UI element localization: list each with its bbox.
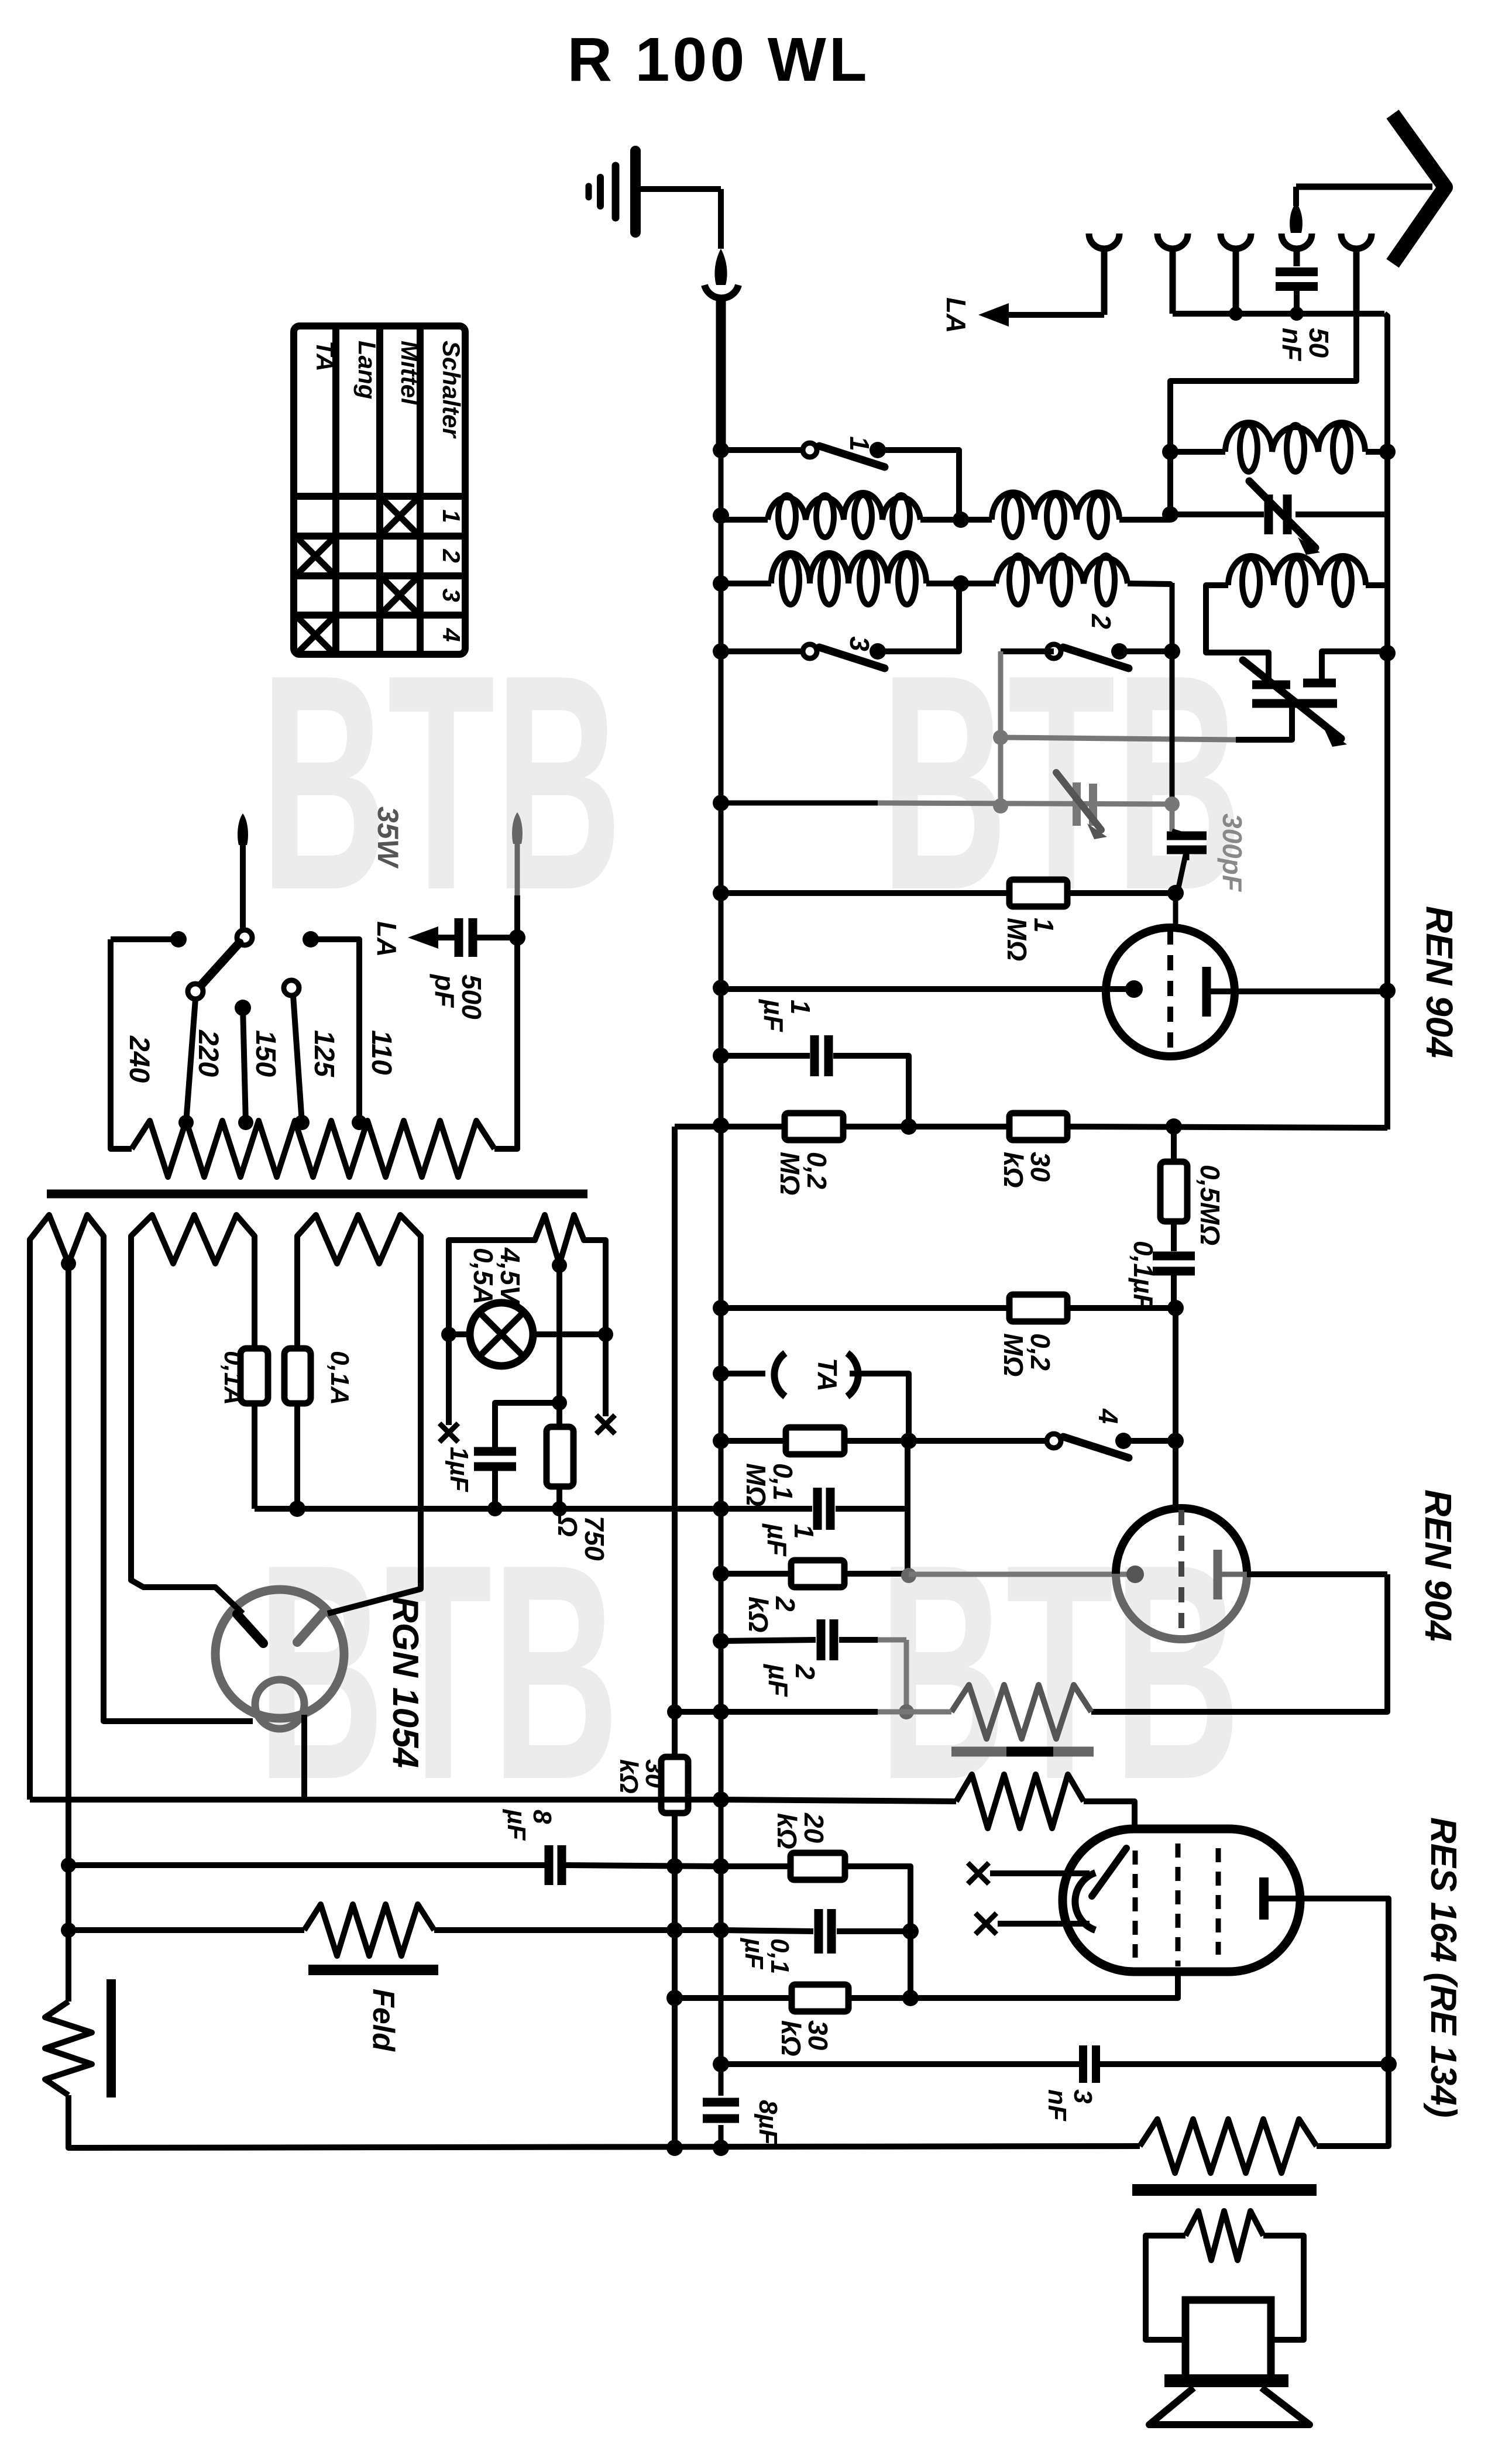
- variable capacitor C-tune2: [1252, 681, 1290, 689]
- svg-text:2: 2: [1086, 613, 1116, 629]
- svg-text:REN 904: REN 904: [1417, 1489, 1459, 1642]
- mains tap contact 240: [111, 936, 178, 942]
- svg-text:REN 904: REN 904: [1418, 906, 1461, 1058]
- svg-text:Schalter: Schalter: [438, 341, 465, 439]
- antenna socket fork 5: [1341, 234, 1356, 249]
- tube V2 cathode dot: [1126, 1566, 1144, 1583]
- tube V3 filament arc: [1075, 1873, 1095, 1930]
- wire V3 anode to output transformer: [1300, 1899, 1389, 2146]
- fuse 0.1A right: [294, 1252, 300, 1348]
- tube V2 anode: [1214, 1550, 1222, 1599]
- mains selector arm: [201, 943, 239, 986]
- tube V3 grid2 dashed: [1176, 1843, 1181, 1966]
- inductor tuning coil L6: [1228, 555, 1366, 585]
- capacitor 300pF: [1167, 832, 1207, 840]
- svg-text:RES 164 (RE 134): RES 164 (RE 134): [1423, 1817, 1463, 2117]
- tube V3 RES 164 envelope: [1063, 1829, 1300, 1972]
- wire coil L6 right to rail: [1366, 582, 1387, 588]
- interstage transformer primary winding: [951, 1685, 1091, 1739]
- resistor 0.2 Mohm: [721, 1124, 785, 1130]
- secondary winding W2 rectifier heater: [131, 1215, 255, 1264]
- svg-text:LA: LA: [372, 921, 402, 957]
- tube V3 heater x mark bottom: [975, 1913, 996, 1934]
- capacitor 3nF: [721, 2061, 1079, 2067]
- capacitor 8uF first: [68, 1862, 545, 1868]
- grid rail tube2: [1173, 1308, 1178, 1508]
- resistor 30 kohm cathode: [675, 1995, 792, 2001]
- choke core bar: [106, 1979, 116, 2097]
- tube V3 cathode slant electrode: [1092, 1848, 1126, 1896]
- wire grid-leak row: [675, 1124, 721, 1130]
- resistor 0.1 Mohm: [721, 1438, 786, 1444]
- wire coil L4 to rail: [1128, 583, 1170, 585]
- svg-text:50nF: 50nF: [1277, 328, 1334, 362]
- ground symbol: [589, 151, 635, 232]
- bus junction dots: [713, 442, 729, 458]
- svg-text:3: 3: [438, 588, 465, 602]
- capacitor 1uF grid: [721, 1053, 810, 1059]
- mains tap 220 lead: [186, 999, 195, 1122]
- capacitor 50nF: [1276, 267, 1318, 276]
- resistor 1 Mohm: [721, 890, 1009, 896]
- wire choke to bottom bus: [68, 2095, 1140, 2148]
- svg-text:125: 125: [308, 1030, 339, 1077]
- resistor 0.2 Mohm second: [721, 1305, 1009, 1311]
- wire ground to antenna line: [635, 186, 721, 192]
- wire bus lower links: [675, 1709, 721, 1715]
- resistor 30 kohm screen: [661, 1757, 688, 1813]
- speaker voice coil winding: [1185, 2211, 1263, 2260]
- variable capacitor C-tune1: [1170, 511, 1264, 517]
- inductor antenna coil L3: [721, 581, 771, 586]
- main vertical bus wire: [719, 452, 724, 2096]
- inductor antenna coil L2: [992, 492, 1119, 520]
- svg-text:4: 4: [438, 627, 465, 641]
- interstage transformer core: [951, 1747, 1094, 1757]
- svg-text:3: 3: [844, 636, 875, 651]
- tube V1 anode: [1202, 967, 1211, 1017]
- RGN filament electrode right: [297, 1613, 323, 1642]
- svg-text:RGN 1054: RGN 1054: [385, 1597, 425, 1768]
- interstage transformer secondary winding: [721, 1800, 956, 1801]
- wire coil L6 left drop: [1206, 585, 1269, 681]
- mains tap 110: [303, 931, 319, 948]
- LA arrow mains: [438, 935, 459, 940]
- wire fork5 to tuned circuit: [1170, 314, 1356, 514]
- svg-text:BTB: BTB: [257, 1501, 619, 1843]
- svg-text:4: 4: [1093, 1408, 1123, 1424]
- svg-text:BTB: BTB: [260, 612, 622, 954]
- wire W2 left to RGN: [131, 1252, 243, 1614]
- output transformer core: [1132, 2184, 1317, 2196]
- antenna fork bus: [1173, 311, 1384, 317]
- tube V1 cathode wire: [721, 986, 1134, 992]
- wire W1 left down: [27, 1252, 33, 1800]
- svg-text:0,1A: 0,1A: [325, 1351, 354, 1405]
- capacitor 1uF cathode: [721, 1506, 812, 1512]
- wire varcap2 bottom to switch2: [1236, 703, 1292, 740]
- antenna socket fork 3: [1221, 234, 1236, 249]
- LA arrow to fork 1: [1009, 312, 1104, 318]
- RGN anode circle: [255, 1680, 304, 1729]
- tube V3 grid3 dashed: [1216, 1848, 1221, 1955]
- svg-text:240: 240: [123, 1035, 154, 1083]
- switch contact 1: [721, 447, 803, 453]
- rectifier tube RGN 1054 envelope: [215, 1590, 344, 1718]
- speaker pole bar: [1164, 2374, 1288, 2387]
- svg-text:2: 2: [438, 548, 465, 562]
- svg-text:Lang: Lang: [353, 341, 381, 399]
- wire switch2 left drop gray: [1001, 648, 1054, 654]
- tube V1 REN 904 envelope: [1106, 928, 1235, 1056]
- svg-text:4,5V0,5A: 4,5V0,5A: [468, 1247, 525, 1305]
- secondary winding W3 HV: [297, 1215, 421, 1264]
- svg-text:1: 1: [438, 509, 465, 523]
- switch contact 3: [721, 648, 803, 654]
- transformer primary winding: [132, 1121, 494, 1177]
- smoothing choke: [45, 2002, 92, 2095]
- wire antenna thick lead: [716, 301, 726, 452]
- wire W1 right to RGN bottom: [104, 1252, 253, 1721]
- capacitor 8uF second: [703, 2098, 739, 2107]
- mains switch terminal 1: [238, 813, 248, 845]
- field coil Feld wire: [68, 1927, 304, 1933]
- mains tap 150: [235, 1000, 251, 1016]
- Feld core bar: [308, 1965, 438, 1975]
- RGN filament electrode left: [237, 1614, 263, 1643]
- wire cathode to tube V3: [910, 1972, 1178, 1998]
- mains tap contact 125: [284, 980, 299, 995]
- wire AVC line gray: [721, 801, 878, 806]
- antenna socket fork 2: [1157, 234, 1173, 249]
- tube V2 REN 904 envelope: [1116, 1508, 1247, 1574]
- svg-text:0,2MΩ: 0,2MΩ: [775, 1152, 832, 1195]
- resistor 2 kohm: [721, 1571, 791, 1577]
- capacitor 500pF: [455, 918, 463, 957]
- antenna arrow symbol: [1393, 114, 1445, 263]
- capacitor 0.1uF heater: [495, 1403, 559, 1447]
- svg-text:0,1µF: 0,1µF: [740, 1937, 794, 1974]
- tube V3 heater x mark top: [968, 1863, 989, 1884]
- wire coil L3 to L4: [926, 581, 996, 586]
- svg-text:TA: TA: [311, 341, 339, 372]
- fuse 0.1A left: [252, 1252, 257, 1348]
- svg-text:0,1A: 0,1A: [219, 1351, 248, 1405]
- capacitor 0.1uF anode: [1153, 1252, 1195, 1261]
- pilot lamp right lead: [603, 1252, 609, 1416]
- switch table Schalter frame: [294, 326, 465, 654]
- wire W1 centertap down: [66, 1265, 71, 2002]
- antenna socket fork 4 with 50nF: [1281, 234, 1297, 249]
- winding4 center tap lead: [556, 1265, 562, 1427]
- wire coil L1 to L2: [920, 517, 992, 523]
- svg-text:110: 110: [366, 1030, 397, 1075]
- svg-text:0,1MΩ: 0,1MΩ: [741, 1463, 798, 1506]
- resistor 20 kohm: [721, 1863, 791, 1869]
- wire coil L2 to node: [1119, 517, 1170, 523]
- svg-text:1: 1: [844, 436, 875, 451]
- pilot lamp: [446, 1252, 452, 1425]
- inductor tuning coil L5: [1170, 449, 1225, 455]
- heater bus wire: [255, 1506, 721, 1512]
- TA pickup jack: [721, 1371, 765, 1376]
- right rail top: [1384, 314, 1387, 1130]
- wire antenna arrow lead: [1296, 184, 1432, 190]
- tube V2 grid dashed: [1178, 1510, 1184, 1636]
- svg-text:8µF: 8µF: [754, 2100, 782, 2145]
- secondary winding W4 pilot: [449, 1215, 606, 1264]
- tube V1 grid dashed: [1167, 929, 1173, 1055]
- resistor 30 kohm: [909, 1124, 1009, 1130]
- tube V3 grid1 dashed: [1133, 1851, 1138, 1958]
- wire varcap2 right plate to rail: [1322, 651, 1387, 683]
- mains terminal 2 gray: [512, 812, 523, 844]
- node grid rail tube1: [1170, 583, 1175, 804]
- svg-text:150: 150: [250, 1030, 281, 1077]
- antenna plug connector: [714, 249, 727, 285]
- switch contact 4: [909, 1438, 1047, 1444]
- wire switch3 to coil junction: [878, 583, 959, 651]
- resistor 750 ohm: [547, 1427, 573, 1487]
- capacitor 2uF: [721, 1640, 816, 1641]
- output transformer primary winding: [1140, 2119, 1317, 2173]
- table X mark Mittel row1: [382, 499, 417, 534]
- transformer core bar: [47, 1190, 587, 1199]
- resistor Feld winding: [304, 1904, 434, 1956]
- inductor antenna coil L1: [721, 517, 768, 523]
- mains tap contact 220: [188, 984, 203, 999]
- svg-text:300pF: 300pF: [1217, 813, 1248, 892]
- tube V3 anode: [1259, 1877, 1269, 1920]
- svg-text:Mittel: Mittel: [396, 341, 424, 406]
- wire W3 right to RGN: [328, 1252, 421, 1614]
- antenna socket fork 1 LA: [1089, 234, 1104, 249]
- svg-text:35W: 35W: [372, 806, 404, 869]
- svg-text:TA: TA: [812, 1358, 843, 1392]
- wire V2 anode to transformer: [1091, 1574, 1387, 1712]
- secondary winding W1 heater: [30, 1215, 104, 1264]
- svg-text:LA: LA: [941, 297, 971, 333]
- svg-text:0,5MΩ: 0,5MΩ: [1195, 1165, 1225, 1245]
- speaker magnet: [1185, 2300, 1271, 2382]
- pilot lamp x stub left: [439, 1423, 458, 1442]
- trimmer capacitor gray: [1073, 782, 1081, 826]
- inductor antenna coil L4: [996, 558, 1128, 583]
- wire left return vertical: [672, 1127, 678, 1757]
- switch contact 2: [1047, 644, 1061, 658]
- table X mark TA row4: [298, 617, 333, 653]
- svg-text:220: 220: [193, 1029, 224, 1077]
- svg-text:1µF: 1µF: [445, 1447, 473, 1492]
- wire switch1 to coil junction: [878, 450, 959, 520]
- capacitor 0.1uF bypass: [721, 1930, 813, 1931]
- table X mark Mittel row3: [382, 578, 417, 613]
- wire bus to transformer primary: [721, 1709, 878, 1715]
- pilot lamp x stub right: [596, 1415, 615, 1434]
- wire RGN anode down: [30, 1715, 304, 1800]
- resistor 0.5 Mohm: [1171, 1127, 1177, 1162]
- node cathode bias vertical: [905, 1441, 910, 1576]
- speaker cone: [1149, 2388, 1310, 2425]
- mains selector pivot: [237, 930, 252, 945]
- svg-text:0,1µF: 0,1µF: [1128, 1241, 1159, 1311]
- svg-text:R 100 WL: R 100 WL: [567, 25, 870, 94]
- svg-text:Feld: Feld: [366, 1989, 400, 2052]
- table X mark TA row2: [298, 538, 333, 574]
- svg-text:0,2MΩ: 0,2MΩ: [998, 1333, 1056, 1376]
- antenna plug pin above fork 4: [1293, 187, 1299, 206]
